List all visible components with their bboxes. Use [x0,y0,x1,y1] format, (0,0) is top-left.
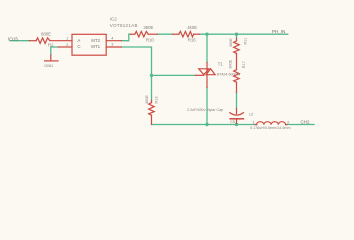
svg-text:L2: L2 [249,111,254,116]
svg-text:IO15: IO15 [8,36,18,41]
svg-text:2: 2 [66,43,68,47]
svg-text:MT2: MT2 [91,38,100,43]
svg-text:A: A [77,38,80,43]
svg-text:360E: 360E [145,95,149,104]
svg-text:R16: R16 [188,37,196,42]
svg-text:R13: R13 [155,97,159,104]
svg-text:IC2: IC2 [110,16,117,21]
svg-text:2.2nF/630v Mylar Cap: 2.2nF/630v Mylar Cap [187,108,223,112]
svg-text:360E: 360E [143,25,153,30]
svg-text:3: 3 [111,43,113,47]
svg-text:680E: 680E [41,31,51,36]
svg-text:1: 1 [253,120,255,124]
svg-text:MT1: MT1 [91,44,100,49]
svg-text:VOT8121AB: VOT8121AB [110,23,138,28]
svg-text:4k0E: 4k0E [187,25,197,30]
svg-text:360E: 360E [229,38,233,47]
svg-text:C: C [77,44,80,49]
svg-text:CH2: CH2 [301,119,310,124]
svg-text:R10: R10 [146,38,154,43]
svg-text:T1: T1 [218,62,224,67]
svg-text:GND: GND [44,63,53,68]
svg-text:BTA24-600CW: BTA24-600CW [217,72,241,76]
svg-text:R11: R11 [243,38,247,45]
svg-text:4: 4 [111,37,113,41]
svg-text:0.176uH/0.5mm/14.6mm: 0.176uH/0.5mm/14.6mm [250,126,291,130]
svg-text:1: 1 [66,37,68,41]
svg-text:360E: 360E [229,59,233,68]
svg-text:PH_IN: PH_IN [272,29,285,34]
svg-text:2: 2 [287,120,289,124]
svg-text:C5: C5 [230,120,235,124]
svg-text:R17: R17 [242,61,246,68]
svg-text:R2: R2 [48,43,54,48]
